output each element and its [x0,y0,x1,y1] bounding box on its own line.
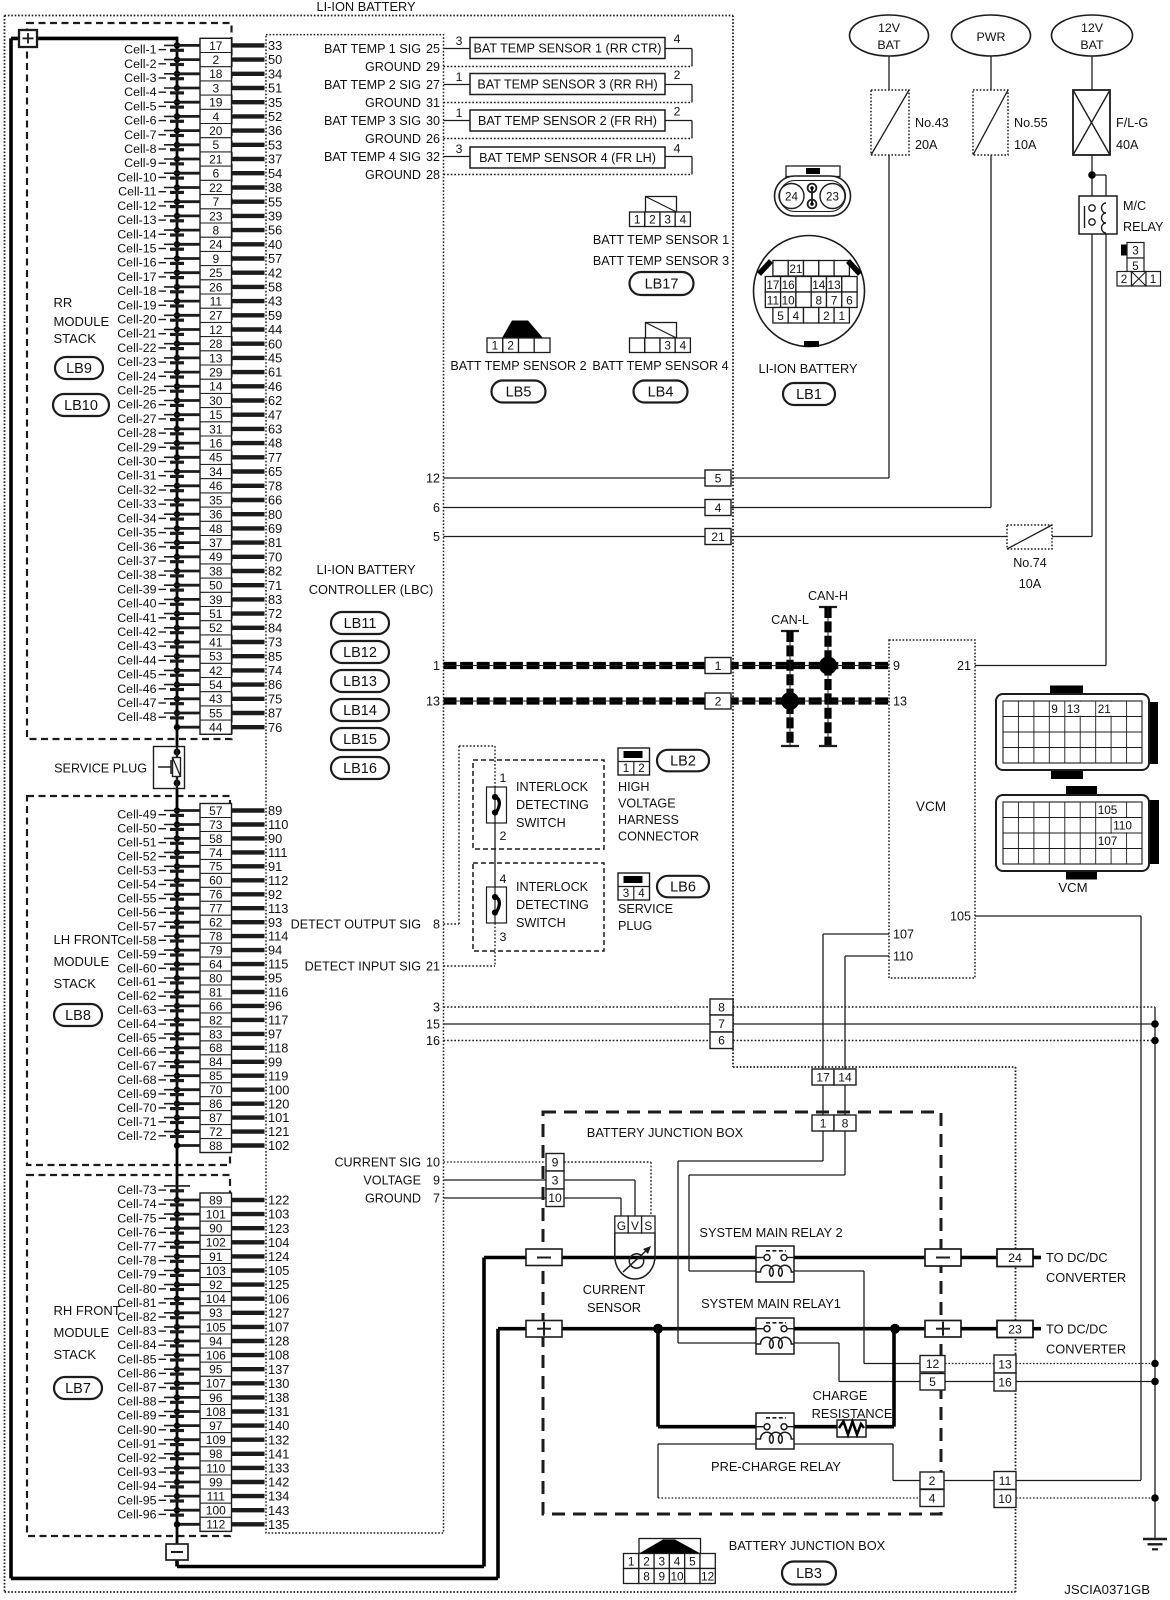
cell Cell-65 [117,1031,190,1045]
svg-text:Cell-59: Cell-59 [117,947,156,961]
wire tap 80 [174,975,200,981]
pin 4 box [200,109,232,124]
svg-text:50: 50 [268,52,282,67]
svg-text:27: 27 [426,78,440,92]
wire tap 83 [174,1031,200,1037]
wire tap 85 [174,1073,200,1079]
wire stub 116 [232,985,289,1000]
wire tap 7 [174,199,200,205]
wire tap 3 [174,85,200,91]
svg-text:49: 49 [209,550,223,564]
wire tap 34 [174,468,200,474]
pin GROUND 7 [365,1191,440,1205]
wire tap 31 [174,426,200,432]
cell Cell-70 [117,1101,190,1115]
wire stub 108 [232,1348,290,1363]
pin 80 box [200,971,232,985]
svg-text:101: 101 [206,1208,226,1222]
svg-text:111: 111 [268,845,287,860]
svg-text:5: 5 [777,309,784,323]
svg-text:Cell-93: Cell-93 [117,1465,156,1479]
svg-text:47: 47 [268,407,282,422]
svg-text:Cell-43: Cell-43 [117,639,156,653]
pin 11 box [200,294,232,309]
cell Cell-79 [117,1268,190,1282]
svg-text:2: 2 [212,53,219,67]
wire tap 9 [174,255,200,261]
wire tap 104 [174,1296,200,1302]
svg-text:74: 74 [209,846,223,860]
svg-text:45: 45 [209,451,223,465]
wire BAT TEMP SENSOR 4 (FR LH) sig [444,142,471,157]
pin 96 box [200,1390,232,1404]
svg-text:86: 86 [268,677,282,692]
wire tap 95 [174,1366,200,1372]
svg-text:103: 103 [268,1207,289,1222]
svg-text:Cell-48: Cell-48 [117,710,156,724]
wire stub 66 [232,493,283,508]
box 16 (boundary conn) [994,1373,1016,1391]
svg-text:20: 20 [209,124,223,138]
LBC box (li-ion battery controller) [266,35,444,1533]
svg-text:34: 34 [268,66,282,81]
svg-text:Cell-79: Cell-79 [117,1268,156,1282]
svg-text:11: 11 [210,295,223,309]
svg-text:120: 120 [268,1096,289,1111]
wire tap 111 [174,1493,200,1499]
svg-text:55: 55 [209,706,223,720]
pin 107 box [200,1376,232,1391]
svg-text:2: 2 [643,1554,650,1568]
svg-text:104: 104 [206,1292,226,1306]
svg-text:73: 73 [209,818,223,832]
wire stub 56 [232,223,283,238]
wire stub 57 [232,251,283,266]
svg-text:10: 10 [782,293,796,307]
svg-text:3: 3 [664,338,671,352]
svg-text:108: 108 [268,1348,289,1363]
RH pin box column [200,1193,232,1531]
svg-text:101: 101 [268,1110,289,1125]
connector LB17 icon [630,197,691,227]
cell Cell-29 [117,440,190,454]
box 4b (bjb conn) [920,1490,944,1507]
svg-text:VCM: VCM [1058,880,1087,895]
pin 68 box [200,1041,232,1055]
wire tap 76 [174,891,200,897]
svg-text:13: 13 [893,695,907,709]
svg-text:110: 110 [1113,818,1132,832]
wire tap 62 [174,919,200,925]
svg-text:3: 3 [552,1173,559,1187]
box 9 (bjb conn) [546,1154,564,1172]
pin 50 box [200,578,232,593]
svg-text:113: 113 [268,901,288,916]
wire stub 96 [232,999,283,1014]
wire tap 4 [174,113,200,119]
svg-text:96: 96 [268,999,282,1014]
wire fuse74 to relay [1052,536,1092,538]
svg-text:13: 13 [1067,702,1081,716]
wire stub 90 [232,831,283,846]
wire pin6 row [444,507,706,509]
cell Cell-89 [117,1409,190,1423]
cell Cell-25 [117,384,190,398]
svg-text:14: 14 [812,278,826,292]
svg-text:43: 43 [209,692,223,706]
svg-text:LB4: LB4 [648,385,674,401]
wire stub 127 [232,1305,290,1320]
connector 24/23 icon [775,166,851,216]
pin 36 box [200,507,232,521]
svg-text:CONVERTER: CONVERTER [1046,1342,1126,1357]
pin 64 box [200,957,232,971]
svg-text:91: 91 [268,859,282,874]
cell Cell-28 [117,426,190,440]
cell Cell-85 [117,1352,190,1366]
svg-text:2: 2 [674,105,681,119]
svg-text:Cell-94: Cell-94 [117,1479,156,1493]
svg-text:116: 116 [268,985,288,1000]
pin 14 box [200,379,232,394]
wire stub 45 [232,351,283,366]
connector LB16 [331,757,389,779]
cell Cell-3 [124,71,190,85]
wire stub 34 [232,66,283,81]
svg-text:Cell-7: Cell-7 [124,128,156,142]
wire stub 124 [232,1249,290,1264]
box 8b (bjb conn) [834,1115,856,1131]
wire stub 69 [232,521,283,536]
svg-text:LB14: LB14 [343,703,377,719]
wire stub 91 [232,859,283,874]
svg-text:RR: RR [54,295,73,310]
svg-text:58: 58 [209,832,223,846]
svg-text:RELAY: RELAY [1123,220,1164,234]
svg-text:6: 6 [718,1034,725,1048]
wire stub 102 [232,1138,290,1153]
VCM connector B icon [996,786,1159,880]
svg-text:MODULE: MODULE [54,1325,110,1340]
pin 91 box [200,1249,232,1263]
svg-text:137: 137 [268,1362,289,1377]
svg-text:39: 39 [268,209,282,224]
wire 12-13 [945,1363,994,1365]
svg-text:78: 78 [209,930,223,944]
wire stub 84 [232,620,283,635]
wire stub 112 [232,873,289,888]
wire tap 29 [174,369,200,375]
pin 25 box [200,266,232,281]
svg-text:Cell-87: Cell-87 [117,1381,156,1395]
current sensor [615,1216,655,1279]
svg-text:Cell-37: Cell-37 [117,554,156,568]
wire stub 74 [232,663,283,678]
cell Cell-4 [124,85,190,99]
cell Cell-45 [117,668,190,682]
svg-text:Cell-23: Cell-23 [117,355,156,369]
service plug symbol [154,747,185,789]
svg-text:108: 108 [206,1405,226,1419]
svg-text:54: 54 [268,166,282,181]
svg-text:Cell-31: Cell-31 [117,469,156,483]
cell Cell-26 [117,398,190,412]
svg-text:77: 77 [268,450,282,465]
svg-text:104: 104 [268,1235,289,1250]
svg-text:25: 25 [426,42,440,56]
svg-text:LB17: LB17 [645,277,679,293]
svg-text:Cell-82: Cell-82 [117,1310,156,1324]
pin BAT TEMP 3 SIG 30 [324,114,440,128]
svg-text:57: 57 [268,251,282,266]
pin 1 [433,659,440,673]
service plug label [54,762,147,776]
svg-text:7: 7 [831,293,838,307]
svg-text:100: 100 [268,1082,289,1097]
cell Cell-18 [117,284,190,298]
svg-text:128: 128 [268,1334,289,1349]
svg-text:97: 97 [268,1027,282,1042]
svg-text:BATT TEMP SENSOR 1: BATT TEMP SENSOR 1 [593,233,729,247]
svg-text:Cell-5: Cell-5 [124,99,156,113]
wire stub 60 [232,336,283,351]
svg-text:LB11: LB11 [344,616,377,632]
wire stub 122 [232,1193,290,1208]
svg-text:CHARGE: CHARGE [813,1388,868,1403]
svg-text:LI-ION BATTERY: LI-ION BATTERY [316,0,416,14]
wire tap 98 [174,1451,200,1457]
LH front module stack box [27,796,230,1165]
svg-text:71: 71 [268,578,282,593]
label batt temp sensor 4 [592,359,728,373]
svg-text:8: 8 [842,1116,849,1130]
svg-text:107: 107 [893,928,914,942]
svg-text:No.43: No.43 [915,116,949,130]
svg-text:18: 18 [209,67,223,81]
pin 58 box [200,831,232,845]
wire stub 50 [232,52,283,67]
svg-text:STACK: STACK [54,331,97,346]
svg-text:60: 60 [209,874,223,888]
wire stub 58 [232,280,283,295]
wire stub 77 [232,450,283,465]
svg-text:141: 141 [268,1446,289,1461]
M/C relay connector icon [1117,243,1161,287]
cell Cell-8 [124,142,190,156]
wire tap 73 [174,821,200,827]
pin VOLTAGE 9 [363,1173,440,1187]
svg-text:124: 124 [268,1249,289,1264]
cell Cell-52 [117,850,190,864]
svg-text:132: 132 [268,1432,289,1447]
box 3 (bjb conn) [546,1171,564,1189]
pin 17 box [200,38,232,53]
wire tap 89 [174,1197,200,1203]
wire stub 111 [232,845,288,860]
wire tap 57 [174,807,200,813]
wire tap 88 [174,1142,200,1148]
svg-text:4: 4 [793,309,800,323]
box 11 (boundary conn) [994,1472,1016,1490]
wire tap 26 [174,284,200,290]
pin DETECT INPUT SIG 21 [305,959,440,973]
svg-text:Cell-77: Cell-77 [117,1240,156,1254]
cell Cell-20 [117,313,190,327]
svg-text:CONVERTER: CONVERTER [1046,1270,1126,1285]
wire stub 72 [232,606,283,621]
plus terminal box [19,30,37,47]
wire stub 83 [232,592,283,607]
wire tap 94 [174,1338,200,1344]
pin 35 box [200,493,232,508]
wire 12V BAT to fuse FLG [1091,56,1093,90]
wire smr2 coil to 12 [794,1271,920,1364]
svg-text:BAT TEMP SENSOR 3 (RR RH): BAT TEMP SENSOR 3 (RR RH) [477,78,657,92]
wire stub 121 [232,1124,290,1139]
wire 10 to ground [1016,1494,1159,1502]
pin 8 box [200,223,232,238]
svg-text:4: 4 [674,1554,681,1568]
svg-text:40: 40 [268,237,282,252]
wire tap 78 [174,933,200,939]
svg-text:105: 105 [1098,803,1118,817]
svg-text:14: 14 [209,380,223,394]
pin 108 box [200,1405,232,1419]
pin 44 box [200,720,232,735]
svg-text:87: 87 [268,706,282,721]
svg-text:26: 26 [426,132,440,146]
cell Cell-2 [124,57,190,71]
svg-text:INTERLOCK: INTERLOCK [516,880,589,894]
svg-text:STACK: STACK [54,976,97,991]
pin GROUND 31 [365,96,440,110]
wire tap 14 [174,383,200,389]
svg-text:JSCIA0371GB: JSCIA0371GB [1064,1582,1150,1597]
box 2b (bjb conn) [920,1472,944,1489]
pin 52 box [200,621,232,636]
svg-text:32: 32 [426,150,440,164]
connector LB9 [55,357,103,379]
cell Cell-84 [117,1338,190,1352]
cell Cell-71 [117,1115,190,1129]
svg-text:8: 8 [212,224,219,238]
svg-text:No.74: No.74 [1013,556,1047,570]
svg-text:16: 16 [209,437,223,451]
wire tap 15 [174,412,200,418]
svg-text:90: 90 [209,1222,223,1236]
connector LB10 [53,394,109,416]
cell Cell-39 [117,582,190,596]
wire tap 39 [174,596,200,602]
svg-text:Cell-19: Cell-19 [117,298,156,312]
wire stub 81 [232,535,283,550]
wire pin3 row [444,1007,1156,1539]
wire stub 85 [232,649,283,664]
cell Cell-30 [117,455,190,469]
svg-text:103: 103 [206,1264,226,1278]
wire tap 16 [174,440,200,446]
svg-text:51: 51 [268,81,282,96]
wire tap 66 [174,1003,200,1009]
svg-text:Cell-34: Cell-34 [117,511,156,525]
svg-text:14: 14 [838,1070,852,1084]
cell Cell-49 [117,808,190,822]
wire VCM107 [823,934,889,1069]
svg-text:8: 8 [643,1569,650,1583]
svg-text:2: 2 [823,309,830,323]
svg-text:Cell-36: Cell-36 [117,540,156,554]
wire VCM21 [975,665,1106,667]
svg-text:112: 112 [268,873,288,888]
svg-text:9: 9 [552,1156,559,1170]
svg-text:69: 69 [268,521,282,536]
battery junction box label [587,1125,744,1140]
wire 2-11 [944,1480,994,1482]
cell Cell-77 [117,1240,190,1254]
svg-text:125: 125 [268,1277,289,1292]
VCM connector A icon [996,686,1158,780]
svg-text:Cell-42: Cell-42 [117,625,156,639]
svg-text:12: 12 [426,471,440,485]
wire tap 82 [174,1017,200,1023]
wire tap 30 [174,397,200,403]
cell Cell-21 [117,327,190,341]
svg-text:1: 1 [715,659,722,673]
pin 54 box [200,678,232,693]
wire tap 103 [174,1267,200,1273]
svg-text:No.55: No.55 [1014,116,1048,130]
CAN wire 2 (pin13 to VCM 13) [444,697,890,704]
svg-text:PLUG: PLUG [618,919,652,933]
cell Cell-16 [117,256,190,270]
svg-text:10: 10 [548,1191,562,1205]
interlock switch 1 [487,771,507,843]
svg-text:99: 99 [268,1054,282,1069]
wire tap 49 [174,554,200,560]
svg-text:81: 81 [209,985,223,999]
svg-text:92: 92 [268,887,282,902]
wire stub 119 [232,1068,289,1083]
svg-text:Cell-85: Cell-85 [117,1352,156,1366]
fuse No.74 10A [1007,525,1052,591]
svg-text:LB9: LB9 [66,361,92,377]
cell Cell-50 [117,822,190,836]
cell Cell-9 [124,156,190,170]
cell Cell-69 [117,1087,190,1101]
svg-text:12: 12 [701,1569,714,1583]
svg-text:Cell-15: Cell-15 [117,242,156,256]
svg-text:106: 106 [268,1291,289,1306]
svg-text:134: 134 [268,1489,289,1504]
connector LB12 [331,641,389,663]
sensor box BAT TEMP SENSOR 2 (FR RH) [470,110,665,131]
pin 42 box [200,663,232,678]
wire VCM110 [845,956,889,1069]
svg-text:30: 30 [426,114,440,128]
wire stub 101 [232,1110,290,1125]
svg-text:105: 105 [950,910,971,924]
svg-text:LB12: LB12 [343,645,377,661]
cell Cell-33 [117,497,190,511]
wire tap 91 [174,1253,200,1259]
cell Cell-23 [117,355,190,369]
svg-text:107: 107 [268,1320,289,1335]
svg-text:15: 15 [209,408,223,422]
wire tap 35 [174,497,200,503]
label li-ion battery [758,361,858,376]
svg-text:4: 4 [674,142,681,156]
wire stub 37 [232,152,283,167]
